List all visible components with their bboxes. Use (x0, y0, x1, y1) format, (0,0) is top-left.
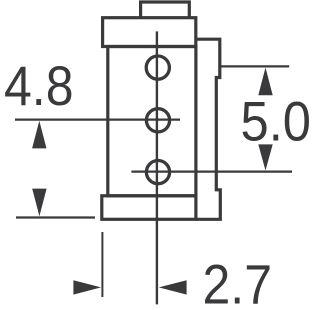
main body (108, 47, 196, 196)
4.8 bottom reference line (16, 216, 95, 218)
pin hole 2 (146, 109, 169, 132)
svg-text:2.7: 2.7 (203, 253, 273, 310)
pin hole 3 (146, 161, 169, 184)
arrow down 4.8 (32, 189, 46, 217)
pin hole 1 (146, 56, 169, 79)
arrow up 4.8 (32, 121, 46, 149)
svg-text:5.0: 5.0 (241, 90, 311, 153)
top cap (103, 18, 196, 47)
top tab (141, 2, 190, 18)
svg-text:4.8: 4.8 (4, 54, 74, 117)
arrow right 2.7 (73, 280, 101, 294)
mid hole reference line (15, 118, 180, 120)
bottom flange (102, 196, 196, 220)
bottom hole reference line (131, 171, 292, 173)
arrow up 5.0 (258, 68, 272, 96)
arrow left 2.7 (159, 280, 187, 294)
5.0 top reference line (220, 65, 289, 67)
right side bracket (196, 39, 220, 219)
arrow down 5.0 (258, 144, 272, 170)
left extension line (101, 232, 103, 297)
center line (156, 31, 158, 304)
